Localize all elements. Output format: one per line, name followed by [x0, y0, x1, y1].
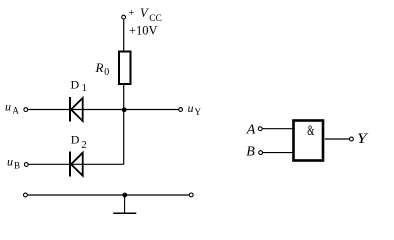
- svg-text:u: u: [5, 100, 11, 114]
- power terminal +Vcc: [122, 15, 126, 19]
- wire R0 to node: [123, 84, 125, 110]
- svg-text:B: B: [246, 145, 255, 160]
- AND gate U1 box: [294, 121, 324, 161]
- bottom right terminal: [189, 193, 193, 197]
- svg-text:u: u: [7, 155, 13, 169]
- svg-text:1: 1: [82, 83, 87, 94]
- bottom wire: [28, 194, 189, 196]
- wire A to gate: [263, 128, 294, 130]
- label D1: [71, 78, 87, 95]
- label R0: [95, 60, 110, 78]
- svg-text:CC: CC: [149, 14, 162, 24]
- svg-text:A: A: [12, 106, 19, 116]
- label uY: [188, 101, 202, 117]
- wire Vcc to R0: [123, 20, 125, 52]
- svg-text:0: 0: [104, 67, 109, 78]
- wire B to gate: [263, 152, 293, 154]
- label uB: [7, 155, 20, 171]
- svg-text:D: D: [71, 78, 80, 92]
- input terminal uB: [24, 163, 28, 167]
- svg-text:A: A: [246, 123, 256, 138]
- diode D1: [70, 97, 83, 122]
- gate output terminal Y: [350, 137, 354, 141]
- bottom junction dot: [122, 193, 127, 198]
- resistor R0: [119, 52, 131, 85]
- svg-text:+10V: +10V: [129, 24, 158, 38]
- node junction dot: [122, 107, 127, 112]
- svg-text:&: &: [307, 122, 314, 139]
- wire node to D2 branch: [123, 110, 125, 165]
- ground: [113, 195, 136, 213]
- label D2: [71, 133, 87, 151]
- gate input terminal A: [258, 127, 262, 131]
- gate input terminal B: [259, 151, 263, 155]
- output terminal uY: [179, 108, 183, 112]
- label +Vcc: [128, 6, 162, 24]
- bottom left terminal: [24, 193, 28, 197]
- svg-text:2: 2: [81, 139, 87, 151]
- svg-text:u: u: [188, 101, 194, 115]
- wire row B (uB to node branch): [29, 163, 124, 165]
- svg-text:R: R: [95, 60, 104, 75]
- svg-text:+: +: [128, 7, 134, 19]
- wire row A (uA to output): [28, 109, 178, 111]
- svg-text:Y: Y: [195, 107, 202, 117]
- label uA: [5, 100, 19, 116]
- svg-text:D: D: [71, 133, 80, 147]
- input terminal uA: [24, 108, 28, 112]
- svg-text:B: B: [14, 160, 20, 170]
- wire gate to Y: [325, 138, 349, 140]
- diode D2: [70, 152, 83, 177]
